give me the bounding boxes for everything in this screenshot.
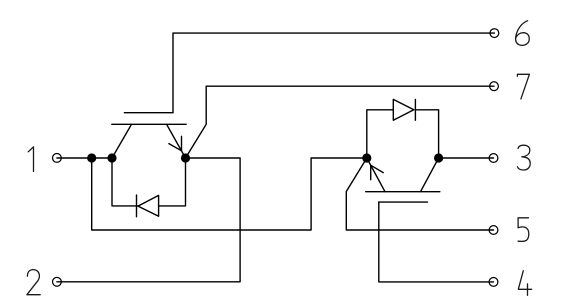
terminal circle 3 xyxy=(489,154,498,163)
diode D1 antiparallel to Q1 xyxy=(137,195,159,217)
wire aux emitter Q1 to terminal 7 xyxy=(186,86,495,158)
terminal circle 5 xyxy=(489,226,498,235)
terminal circle 7 xyxy=(490,82,499,91)
transistor Q1 high-side IGBT xyxy=(112,113,186,158)
wire node E to terminal 3 xyxy=(439,157,494,159)
wire diode D2 down to node E xyxy=(415,110,438,158)
terminal circle 2 xyxy=(53,277,62,286)
wire gate Q1 to terminal 6 xyxy=(173,33,494,113)
node E junction xyxy=(434,153,443,162)
wire node A down and across to node D xyxy=(92,158,367,230)
transistor Q2 low-side IGBT xyxy=(366,158,440,202)
diode D2 antiparallel to Q2 xyxy=(393,99,415,120)
pin label 6 xyxy=(516,21,530,46)
wire aux emitter Q2 to terminal 5 xyxy=(346,158,493,230)
wire gate Q2 to terminal 4 xyxy=(379,202,494,282)
pin label 2 xyxy=(27,270,40,295)
terminal circle 1 xyxy=(53,154,62,163)
wire node B down to diode D1 anode side xyxy=(112,158,138,206)
pin label 4 xyxy=(518,271,531,296)
node D junction xyxy=(362,153,371,162)
node C junction xyxy=(181,153,190,162)
pin label 3 xyxy=(518,145,531,170)
pin label 1 xyxy=(28,147,33,172)
terminal circle 4 xyxy=(489,278,498,287)
wire diode D1 to node C xyxy=(159,158,186,206)
pin label 7 xyxy=(517,74,529,99)
node B junction xyxy=(107,153,116,162)
node A junction xyxy=(87,153,96,162)
wire node C to terminal 2 xyxy=(57,158,240,282)
wire node D up to diode D2 xyxy=(367,110,394,158)
pin label 5 xyxy=(518,218,529,242)
terminal circle 6 xyxy=(490,29,499,38)
wire terminal 1 to node B xyxy=(57,157,112,159)
